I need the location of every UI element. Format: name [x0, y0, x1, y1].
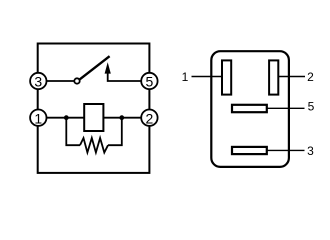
- wire: switch arrow to terminal 5: [108, 72, 142, 82]
- wire: left branch down: [66, 118, 80, 146]
- pin 2 slot: [269, 60, 278, 94]
- svg-text:5: 5: [308, 100, 315, 114]
- pin 5 leader: [267, 107, 305, 109]
- terminal 1: [30, 110, 46, 127]
- pin 5 slot: [232, 105, 267, 112]
- pin 3 slot: [232, 147, 267, 154]
- wire: terminal 3 to switch pivot: [47, 80, 75, 82]
- relay coil: [84, 104, 103, 131]
- switch arrow head: [105, 62, 111, 73]
- pin 1 slot: [222, 60, 231, 94]
- pin 2 leader: [278, 76, 305, 78]
- node junction left: [64, 115, 69, 120]
- connector body: [211, 51, 289, 167]
- wire: right branch up: [108, 118, 122, 146]
- resistor (parallel with coil): [80, 138, 108, 153]
- svg-text:3: 3: [34, 74, 42, 90]
- svg-text:2: 2: [146, 110, 154, 126]
- terminal 2: [141, 110, 157, 127]
- pin 1 leader: [192, 76, 223, 78]
- terminal 5: [141, 73, 157, 90]
- terminal 3: [30, 73, 46, 90]
- wire: terminal 1 to terminal 2 (coil row): [47, 117, 142, 119]
- svg-text:2: 2: [307, 70, 314, 84]
- relay internal circuit box: [38, 44, 150, 173]
- svg-text:5: 5: [146, 74, 154, 90]
- switch pivot contact: [74, 78, 79, 83]
- svg-text:1: 1: [182, 70, 189, 84]
- pin 3 leader: [267, 149, 305, 151]
- node junction right: [119, 115, 124, 120]
- svg-text:1: 1: [34, 110, 42, 126]
- switch arm: [79, 56, 110, 80]
- svg-text:3: 3: [307, 144, 314, 158]
